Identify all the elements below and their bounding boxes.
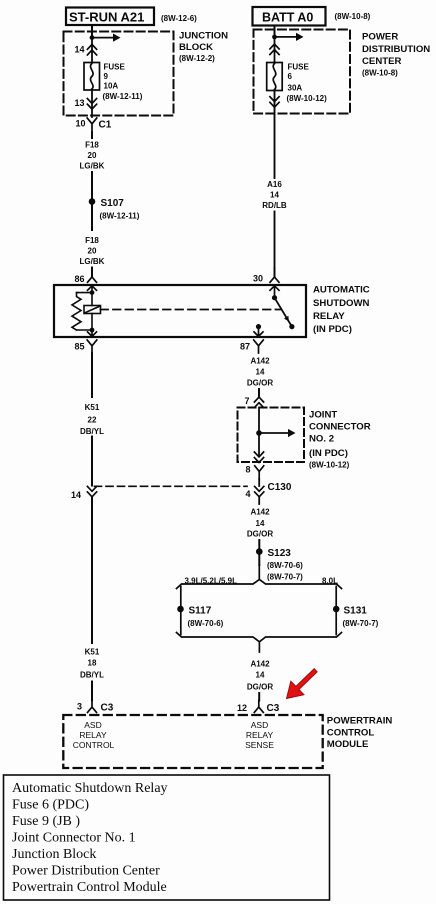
connector arrow pin 86 inside: [88, 286, 97, 293]
C130 dashed tie line: [95, 485, 248, 487]
svg-text:JUNCTION: JUNCTION: [179, 31, 228, 42]
label S123 refs: [267, 548, 303, 582]
svg-text:CONNECTOR: CONNECTOR: [309, 422, 371, 433]
svg-text:7: 7: [244, 396, 249, 406]
label (8W-10-8) top: [335, 12, 371, 21]
svg-text:DG/OR: DG/OR: [247, 683, 273, 692]
svg-text:A142: A142: [250, 357, 270, 366]
wire to inline connector: [91, 437, 93, 486]
svg-text:CENTER: CENTER: [362, 56, 402, 67]
svg-text:3: 3: [77, 702, 82, 712]
wire label K51 22 DB/YL: [80, 403, 104, 436]
relay arm arrowhead: [284, 316, 289, 322]
svg-text:10A: 10A: [104, 82, 119, 91]
node JC dot: [256, 430, 262, 436]
label FUSE 9 10A (8W-12-11): [103, 63, 143, 102]
node junction dot PDC: [272, 35, 277, 40]
svg-text:A142: A142: [250, 508, 270, 517]
svg-text:S117: S117: [189, 606, 212, 617]
node relay contact 87: [256, 324, 261, 329]
svg-text:DB/YL: DB/YL: [80, 427, 104, 436]
svg-text:S131: S131: [344, 606, 368, 617]
svg-text:9: 9: [104, 72, 109, 81]
pin label 85: [74, 342, 84, 352]
joint connector no.2 dashed box: [238, 408, 305, 463]
fuse F6 body: [267, 63, 283, 91]
wire fuse6 down: [274, 91, 276, 179]
svg-text:FUSE: FUSE: [104, 63, 126, 72]
pin label 8: [245, 465, 250, 475]
wire inline connector down: [91, 497, 93, 643]
wire label A142 14 DG/OR (2nd): [247, 508, 273, 539]
box BATT A0: [253, 7, 326, 26]
label (8W-12-6): [161, 14, 197, 23]
svg-text:(IN PDC): (IN PDC): [309, 448, 348, 459]
relay switch arm: [275, 298, 292, 327]
connector label C130: [268, 482, 292, 493]
svg-text:S123: S123: [268, 548, 292, 559]
pin label 12: [237, 703, 247, 713]
svg-text:SENSE: SENSE: [245, 740, 274, 750]
svg-text:DG/OR: DG/OR: [247, 530, 273, 539]
svg-text:C130: C130: [268, 482, 292, 493]
node relay coil bottom: [90, 328, 95, 333]
svg-text:Fuse 6 (PDC): Fuse 6 (PDC): [12, 798, 89, 813]
svg-text:8.0L: 8.0L: [322, 577, 338, 586]
svg-text:(8W-70-6): (8W-70-6): [188, 619, 224, 628]
relay actuator dashed line: [101, 309, 281, 311]
svg-text:(8W-10-12): (8W-10-12): [309, 461, 350, 470]
wire S107 down: [91, 205, 93, 230]
svg-text:14: 14: [256, 368, 265, 377]
wire to S123: [258, 540, 260, 565]
pin label 86: [74, 274, 84, 284]
connector fork pin 30: [270, 277, 279, 282]
svg-text:14: 14: [256, 519, 265, 528]
svg-text:POWER: POWER: [362, 32, 398, 43]
wire label A142 14 DG/OR (1st): [247, 357, 273, 388]
connector chevrons pin 13: [87, 99, 96, 110]
wire 87 down: [254, 327, 263, 337]
svg-text:F18: F18: [85, 141, 99, 150]
resistor in relay: [72, 293, 81, 330]
connector fork pin 87: [254, 340, 264, 353]
svg-text:86: 86: [74, 274, 84, 284]
branch wire left: [180, 587, 182, 635]
wire dot to fuse 9: [91, 38, 93, 63]
svg-text:8: 8: [245, 465, 250, 475]
branch wire right: [335, 587, 337, 635]
pin label 87: [240, 342, 250, 352]
label AUTOMATIC SHUTDOWN RELAY (IN PDC): [313, 285, 370, 335]
box ST-RUN A21: [66, 8, 154, 26]
svg-text:(8W-70-7): (8W-70-7): [343, 619, 379, 628]
svg-text:FUSE: FUSE: [288, 63, 310, 72]
powertrain control module dashed box: [63, 715, 322, 768]
svg-text:SHUTDOWN: SHUTDOWN: [313, 298, 370, 309]
wire coil bottom branch: [77, 329, 93, 331]
svg-text:12: 12: [237, 703, 247, 713]
svg-text:Junction Block: Junction Block: [12, 847, 96, 862]
svg-text:(8W-70-7): (8W-70-7): [267, 573, 303, 582]
svg-text:22: 22: [88, 416, 97, 425]
connector C130 chevrons: [255, 486, 264, 496]
svg-text:(8W-10-8): (8W-10-8): [362, 69, 398, 78]
svg-text:(8W-12-11): (8W-12-11): [100, 212, 140, 221]
svg-text:Fuse 9 (JB ): Fuse 9 (JB ): [12, 814, 80, 829]
svg-text:K51: K51: [85, 403, 100, 412]
svg-text:85: 85: [74, 342, 84, 352]
svg-text:RD/LB: RD/LB: [262, 201, 287, 210]
svg-text:CONTROL: CONTROL: [73, 740, 115, 750]
wire label K51 18 DB/YL: [80, 648, 104, 680]
pin label 14 (inline): [71, 490, 81, 500]
junction block dashed box: [64, 32, 174, 116]
svg-text:6: 6: [288, 72, 293, 81]
wire to S107: [91, 172, 93, 198]
pin label 13: [74, 98, 84, 108]
wire label A142 14 DG/OR (3rd): [247, 660, 273, 692]
connector C1 fork: [87, 118, 97, 132]
node junction dot JB: [90, 35, 95, 40]
connector arrow pin 30 inside: [270, 286, 279, 298]
inline connector chevrons (14): [87, 486, 96, 496]
wire C1 to S107: [91, 132, 93, 138]
svg-text:3.9L/5.2L/5.9L: 3.9L/5.2L/5.9L: [185, 577, 238, 586]
label ST-RUN A21: [69, 10, 144, 25]
svg-text:4: 4: [245, 489, 250, 499]
connector label C3 left: [101, 703, 114, 714]
connector chevrons fuse6 bottom: [270, 97, 279, 108]
wire coil top branch: [77, 292, 93, 294]
svg-text:POWERTRAIN: POWERTRAIN: [327, 716, 393, 727]
pin label 10: [75, 119, 85, 129]
pin label 7: [244, 396, 249, 406]
pin label 3: [77, 702, 82, 712]
red arrow callout: [287, 669, 318, 699]
label 8.0L: [322, 577, 338, 586]
svg-text:C1: C1: [99, 120, 112, 131]
wire label F18 20 LG/BK (upper): [80, 141, 105, 171]
svg-text:(8W-70-6): (8W-70-6): [267, 561, 303, 570]
splice S123: [256, 548, 263, 555]
svg-text:LG/BK: LG/BK: [80, 162, 105, 171]
connector chevrons pin 8: [254, 452, 263, 463]
svg-text:RELAY: RELAY: [79, 730, 107, 740]
svg-text:(8W-10-8): (8W-10-8): [335, 12, 371, 21]
wire dot to fuse 6: [274, 37, 276, 63]
svg-text:CONTROL: CONTROL: [327, 727, 375, 738]
svg-text:JOINT: JOINT: [309, 410, 337, 421]
connector fork PCM pin 12: [254, 701, 263, 713]
svg-text:13: 13: [74, 98, 84, 108]
engine split bracket bottom: [177, 633, 342, 653]
splice S131: [333, 606, 340, 613]
svg-text:BLOCK: BLOCK: [179, 42, 213, 53]
svg-text:S107: S107: [101, 198, 125, 209]
wire into relay pin 30: [274, 268, 276, 277]
wire arrow JC right: [259, 429, 296, 437]
svg-text:C3: C3: [267, 703, 280, 714]
relay coil: [84, 293, 101, 330]
connector fork PCM pin 3: [88, 701, 97, 713]
svg-text:K51: K51: [85, 648, 100, 657]
node relay coil top: [90, 290, 95, 295]
svg-text:(8W-12-2): (8W-12-2): [179, 54, 215, 63]
label S107 (8W-12-11): [100, 198, 140, 221]
splice S107: [89, 198, 96, 205]
relay box AUTOMATIC SHUTDOWN RELAY: [54, 285, 306, 337]
node relay arm end: [289, 324, 294, 329]
svg-text:ASD: ASD: [251, 720, 268, 730]
svg-text:14: 14: [256, 671, 265, 680]
wire arrow feed right (JB): [92, 34, 121, 42]
node relay common 30: [272, 295, 277, 300]
svg-text:A16: A16: [267, 180, 282, 189]
svg-text:Power Distribution Center: Power Distribution Center: [12, 864, 160, 879]
label S117 (8W-70-6): [188, 606, 224, 629]
svg-text:AUTOMATIC: AUTOMATIC: [313, 285, 370, 296]
svg-text:F18: F18: [85, 236, 99, 245]
label FUSE 6 30A (8W-10-12): [287, 63, 328, 104]
connector label C3 right: [267, 703, 280, 714]
connector arrow pin 85 inside: [88, 330, 97, 336]
wire to joint connector: [258, 389, 260, 397]
splice S117: [177, 606, 184, 613]
svg-text:DISTRIBUTION: DISTRIBUTION: [362, 44, 430, 55]
connector label C1: [99, 120, 112, 131]
svg-text:(IN PDC): (IN PDC): [313, 324, 352, 335]
wire to PCM pin 3: [91, 682, 93, 701]
label POWER DISTRIBUTION CENTER: [362, 32, 430, 78]
label S131 (8W-70-7): [343, 606, 379, 629]
svg-text:10: 10: [75, 119, 85, 129]
svg-text:30A: 30A: [288, 84, 303, 93]
svg-text:Automatic Shutdown Relay: Automatic Shutdown Relay: [12, 781, 168, 796]
wire to C130: [258, 479, 260, 486]
connector fork below JC: [255, 466, 264, 479]
connector fork pin 86: [88, 277, 97, 282]
svg-text:20: 20: [88, 247, 97, 256]
svg-text:RELAY: RELAY: [246, 730, 274, 740]
wire fuse9 to C1: [91, 90, 93, 117]
svg-text:RELAY: RELAY: [313, 311, 345, 322]
svg-text:DG/OR: DG/OR: [247, 379, 273, 388]
svg-text:18: 18: [88, 659, 97, 668]
wire BATT to junction dot: [274, 26, 276, 37]
svg-text:Powertrain Control Module: Powertrain Control Module: [12, 880, 167, 895]
svg-text:Joint Connector No. 1: Joint Connector No. 1: [12, 831, 136, 846]
label JUNCTION BLOCK: [179, 31, 228, 64]
wire A16 to relay: [274, 212, 276, 269]
connector chevrons fuse6 top: [270, 44, 279, 55]
wire ST-RUN to junction dot: [91, 26, 93, 37]
wire into relay pin 86: [91, 268, 93, 278]
wire inside JC no2: [258, 408, 260, 455]
legend box: [4, 775, 330, 900]
pin label 4: [245, 489, 250, 499]
svg-text:(8W-12-11): (8W-12-11): [103, 92, 143, 101]
pin label 14: [74, 45, 84, 55]
connector chevrons pin 14: [87, 44, 96, 55]
svg-text:20: 20: [88, 151, 97, 160]
svg-text:87: 87: [240, 342, 250, 352]
svg-text:BATT A0: BATT A0: [262, 11, 313, 25]
svg-text:ASD: ASD: [84, 720, 101, 730]
wire arrow feed right (PDC): [275, 33, 304, 41]
label ASD RELAY CONTROL: [73, 720, 115, 750]
svg-text:14: 14: [74, 45, 84, 55]
svg-text:(8W-12-6): (8W-12-6): [161, 14, 197, 23]
svg-text:30: 30: [253, 274, 263, 284]
svg-text:DB/YL: DB/YL: [80, 671, 104, 680]
wire to PCM pin 12: [258, 693, 260, 701]
connector fork pin 85: [87, 340, 97, 353]
fuse F9 body: [84, 63, 100, 91]
svg-text:14: 14: [270, 191, 279, 200]
left wire from pin 85 down: [91, 353, 93, 397]
svg-text:14: 14: [71, 490, 81, 500]
wire label F18 20 LG/BK (lower): [80, 236, 105, 266]
connector chevrons pin 7: [254, 397, 263, 408]
svg-text:LG/BK: LG/BK: [80, 257, 105, 266]
power distribution center dashed box: [254, 30, 351, 114]
svg-text:NO. 2: NO. 2: [309, 434, 334, 445]
svg-text:MODULE: MODULE: [327, 739, 369, 750]
svg-text:(8W-10-12): (8W-10-12): [287, 94, 328, 103]
label 3.9L/5.2L/5.9L: [185, 577, 238, 586]
legend text: [12, 781, 168, 895]
label POWERTRAIN CONTROL MODULE: [327, 716, 393, 751]
engine split bracket top: [177, 565, 342, 589]
wire C130 down: [258, 497, 260, 504]
label JOINT CONNECTOR NO. 2: [309, 410, 371, 470]
label BATT A0: [262, 11, 313, 25]
svg-text:A142: A142: [250, 660, 270, 669]
svg-text:ST-RUN A21: ST-RUN A21: [69, 10, 144, 25]
svg-text:C3: C3: [101, 703, 114, 714]
label ASD RELAY SENSE: [245, 720, 274, 750]
pin label 30: [253, 274, 263, 284]
wire label A16 14 RD/LB: [262, 180, 287, 210]
